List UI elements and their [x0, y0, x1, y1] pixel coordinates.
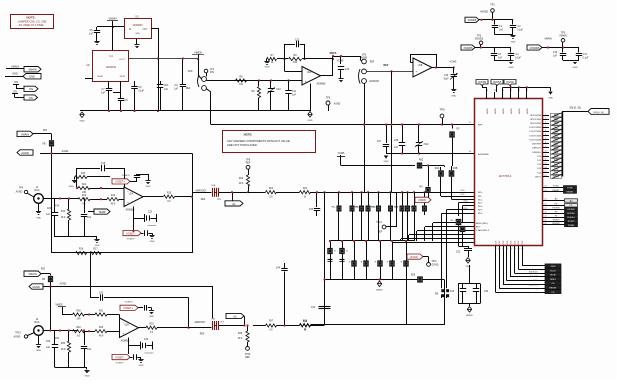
svg-text:A2: A2: [233, 314, 237, 318]
svg-text:VCM5: VCM5: [338, 152, 345, 155]
svg-text:VOSET+: VOSET+: [123, 307, 133, 310]
svg-text:49.9: 49.9: [61, 217, 66, 219]
svg-text:R22: R22: [269, 188, 274, 190]
svg-text:ADR4540: ADR4540: [106, 66, 117, 69]
svg-text:ON: ON: [14, 81, 18, 84]
svg-text:GND: GND: [139, 365, 144, 367]
svg-text:IN1−: IN1−: [478, 196, 483, 198]
svg-text:R10: R10: [81, 173, 86, 175]
svg-text:RCA: RCA: [34, 321, 39, 324]
svg-text:R13: R13: [111, 195, 116, 197]
svg-text:C31: C31: [311, 307, 316, 309]
svg-text:AD8656: AD8656: [316, 83, 326, 86]
svg-text:C5A: C5A: [164, 84, 169, 87]
svg-text:VMAIN: VMAIN: [28, 68, 36, 72]
svg-text:AMP2OUT: AMP2OUT: [194, 321, 206, 324]
svg-text:AGND: AGND: [376, 289, 383, 292]
svg-text:VOSET−: VOSET−: [127, 239, 136, 241]
svg-text:C15: C15: [444, 75, 449, 77]
svg-text:TEMP: TEMP: [97, 76, 104, 78]
svg-text:GND: GND: [573, 67, 578, 69]
svg-text:ON: ON: [29, 87, 33, 91]
svg-text:GND: GND: [36, 218, 41, 220]
svg-text:GND: GND: [95, 245, 100, 247]
svg-text:GND: GND: [265, 67, 270, 69]
svg-text:GND: GND: [149, 316, 154, 318]
svg-text:TP16: TP16: [245, 354, 251, 356]
svg-text:IN2−: IN2−: [478, 203, 483, 205]
svg-text:AGNDCP: AGNDCP: [369, 80, 379, 83]
svg-text:DB9/SEL: DB9/SEL: [532, 152, 541, 154]
svg-text:IN2+: IN2+: [478, 199, 483, 201]
svg-text:R31: R31: [99, 310, 104, 312]
svg-text:18: 18: [517, 249, 519, 251]
svg-text:U1B: U1B: [418, 65, 423, 67]
svg-text:C16: C16: [553, 52, 558, 54]
svg-text:GND: GND: [511, 42, 516, 44]
svg-text:DB7/FMT: DB7/FMT: [532, 144, 542, 146]
svg-text:FB: FB: [42, 279, 45, 281]
svg-text:C21: C21: [87, 217, 92, 219]
svg-text:ON: ON: [13, 90, 17, 93]
svg-text:ST/SPI: ST/SPI: [553, 219, 560, 221]
svg-text:R30: R30: [76, 310, 81, 312]
svg-text:AD: AD: [86, 64, 90, 67]
svg-text:1uF: 1uF: [499, 30, 504, 32]
svg-text:TP11: TP11: [431, 261, 437, 263]
svg-text:1uF: 1uF: [89, 33, 94, 36]
svg-text:REF5: REF5: [330, 51, 337, 55]
svg-text:DVDD5: DVDD5: [493, 81, 502, 84]
svg-text:TP1: TP1: [490, 4, 495, 7]
svg-text:GND: GND: [308, 120, 313, 122]
svg-text:IN3−: IN3−: [478, 210, 483, 212]
svg-text:12: 12: [494, 249, 496, 251]
svg-text:1uF: 1uF: [46, 214, 51, 216]
svg-text:49.9: 49.9: [61, 349, 66, 351]
svg-text:R11: R11: [82, 184, 87, 186]
svg-text:C10: C10: [276, 89, 281, 91]
svg-text:VMAIN: VMAIN: [544, 38, 552, 41]
svg-text:17: 17: [514, 249, 516, 251]
svg-text:TRIM: TRIM: [119, 76, 125, 78]
svg-text:PD: PD: [570, 205, 573, 207]
svg-text:MISO: MISO: [550, 279, 556, 281]
svg-text:C28: C28: [394, 140, 399, 142]
svg-text:XTAL1/MCLK: XTAL1/MCLK: [476, 229, 490, 232]
svg-text:AVDD: AVDD: [518, 108, 521, 114]
svg-text:1uF: 1uF: [164, 89, 169, 91]
svg-text:SDI/SCLK: SDI/SCLK: [529, 272, 539, 274]
svg-text:IOVDD5: IOVDD5: [530, 46, 540, 50]
svg-text:R37: R37: [269, 320, 274, 322]
svg-text:AVDD: AVDD: [526, 108, 529, 114]
svg-text:ADR4540: ADR4540: [133, 24, 144, 27]
svg-text:IN4+: IN4+: [478, 213, 483, 215]
svg-text:SCLK: SCLK: [518, 240, 520, 246]
svg-text:VMAIN: VMAIN: [11, 66, 19, 69]
svg-text:TEMP: TEMP: [98, 210, 105, 214]
svg-text:49.9: 49.9: [99, 335, 104, 337]
svg-text:VMAIN: VMAIN: [21, 132, 29, 136]
svg-text:C5A: C5A: [211, 184, 216, 187]
svg-text:REF: REF: [370, 62, 375, 64]
svg-text:R17: R17: [93, 249, 98, 251]
svg-text:49.9: 49.9: [238, 338, 243, 340]
svg-text:0.1uF: 0.1uF: [138, 91, 144, 93]
svg-text:C42: C42: [99, 293, 104, 295]
svg-text:−: −: [305, 68, 307, 72]
svg-text:MOSI: MOSI: [550, 275, 556, 277]
svg-text:RESET: RESET: [549, 288, 557, 290]
svg-text:VMAIN: VMAIN: [559, 35, 567, 38]
svg-text:19: 19: [521, 249, 523, 251]
svg-text:AGND: AGND: [16, 191, 23, 194]
svg-text:VCM5: VCM5: [337, 60, 344, 63]
svg-text:TP4: TP4: [19, 188, 24, 190]
svg-text:49.9: 49.9: [111, 203, 116, 205]
svg-text:C17: C17: [583, 54, 588, 56]
svg-text:TP6: TP6: [326, 98, 331, 100]
svg-text:C44: C44: [276, 268, 281, 270]
svg-text:R38: R38: [303, 320, 308, 322]
svg-text:DOUT0/DB6: DOUT0/DB6: [529, 139, 542, 141]
svg-text:VMAIN: VMAIN: [109, 18, 117, 21]
svg-text:15: 15: [506, 249, 508, 251]
svg-text:C40: C40: [46, 341, 51, 343]
svg-text:R3A: R3A: [435, 167, 440, 170]
svg-text:SCLK: SCLK: [511, 240, 513, 246]
svg-text:VOSET−: VOSET−: [116, 363, 125, 365]
svg-text:IN4−: IN4−: [476, 227, 481, 229]
svg-text:AVDD: AVDD: [494, 108, 497, 114]
svg-text:AGND: AGND: [334, 103, 341, 106]
svg-text:VMAIN: VMAIN: [28, 272, 36, 276]
svg-text:R28: R28: [411, 275, 416, 277]
svg-text:ST/SPI: ST/SPI: [568, 221, 575, 223]
svg-text:SCLK: SCLK: [522, 240, 524, 246]
svg-text:AVDD: AVDD: [502, 108, 505, 114]
svg-text:AIN4+(NILL): AIN4+(NILL): [476, 222, 488, 225]
svg-text:REF: REF: [384, 64, 389, 67]
svg-text:DVDD5: DVDD5: [475, 38, 484, 41]
svg-text:C12: C12: [295, 40, 300, 42]
svg-text:U2A: U2A: [129, 193, 134, 196]
svg-text:GND: GND: [150, 241, 155, 243]
svg-text:PIN/SPI: PIN/SPI: [552, 223, 560, 225]
svg-text:REF: REF: [478, 125, 483, 127]
svg-text:1uF: 1uF: [394, 147, 399, 149]
svg-text:IN2+: IN2+: [464, 201, 469, 203]
svg-text:IN3+: IN3+: [478, 206, 483, 208]
svg-text:AD7768-4: AD7768-4: [499, 174, 512, 178]
svg-text:AGND: AGND: [466, 314, 473, 317]
svg-text:SDI [0..15]: SDI [0..15]: [593, 112, 604, 114]
svg-text:IN: IN: [129, 29, 132, 31]
svg-text:IN2−: IN2−: [464, 208, 469, 210]
svg-text:R3B: R3B: [453, 168, 458, 170]
svg-text:DGND: DGND: [410, 256, 418, 259]
svg-text:TP9: TP9: [439, 108, 445, 112]
svg-text:AVDD: AVDD: [486, 108, 489, 114]
svg-text:16: 16: [510, 249, 512, 251]
svg-text:+: +: [123, 332, 125, 336]
svg-text:C13: C13: [345, 69, 350, 71]
svg-text:A5V: A5V: [210, 71, 215, 74]
svg-text:ARE NOT POPULATED.: ARE NOT POPULATED.: [227, 143, 258, 147]
svg-text:SYNC: SYNC: [567, 187, 573, 189]
svg-text:miniature: miniature: [148, 224, 158, 227]
svg-text:FILTER: FILTER: [552, 207, 560, 209]
svg-text:SCLK: SCLK: [514, 240, 516, 246]
svg-text:AS USED AT A TIME: AS USED AT A TIME: [19, 23, 44, 27]
svg-text:SCLK: SCLK: [495, 240, 497, 246]
svg-text:FB1: FB1: [43, 130, 48, 132]
svg-text:GND: GND: [451, 96, 456, 98]
svg-text:47uF: 47uF: [423, 144, 429, 146]
svg-text:AVDD: AVDD: [510, 108, 513, 114]
svg-text:CS: CS: [551, 283, 555, 285]
svg-text:14: 14: [502, 249, 504, 251]
svg-text:GND: GND: [548, 98, 553, 100]
svg-text:R14: R14: [61, 211, 66, 213]
svg-text:GND: GND: [36, 350, 41, 352]
svg-text:CS/DRDY: CS/DRDY: [529, 284, 539, 286]
svg-text:C32: C32: [456, 252, 461, 254]
svg-text:1uF: 1uF: [292, 95, 297, 97]
svg-text:DVDD5: DVDD5: [464, 46, 473, 50]
svg-text:SDI [0..15]: SDI [0..15]: [569, 107, 581, 110]
svg-text:AGND: AGND: [21, 151, 29, 155]
svg-text:DOUT1/DB5: DOUT1/DB5: [529, 135, 542, 137]
svg-text:0.1uF: 0.1uF: [583, 58, 589, 60]
svg-text:FB2: FB2: [419, 160, 424, 162]
svg-text:PDWN: PDWN: [568, 225, 575, 227]
svg-text:IN1+: IN1+: [478, 192, 483, 194]
svg-text:C27: C27: [377, 141, 382, 143]
svg-text:GPIO1/DB1: GPIO1/DB1: [530, 119, 542, 121]
svg-text:−: −: [419, 61, 421, 65]
svg-text:−: −: [123, 321, 125, 325]
svg-text:R15: R15: [167, 193, 172, 195]
svg-text:SCLK: SCLK: [550, 270, 556, 272]
svg-text:R16: R16: [79, 249, 84, 251]
svg-text:OUT: OUT: [143, 29, 148, 31]
svg-text:SYNC: SYNC: [553, 186, 559, 188]
svg-text:GND: GND: [69, 186, 74, 188]
svg-text:GPIO2/DB2: GPIO2/DB2: [530, 123, 542, 125]
svg-text:TP15: TP15: [15, 333, 21, 335]
svg-text:C33: C33: [450, 291, 455, 293]
svg-text:C23: C23: [148, 212, 153, 214]
svg-text:R35: R35: [149, 324, 154, 326]
svg-text:C19: C19: [101, 163, 106, 165]
svg-text:VOSET−: VOSET−: [126, 232, 136, 235]
svg-text:1uF: 1uF: [46, 347, 51, 349]
svg-text:TP10: TP10: [376, 222, 382, 224]
svg-text:REF: REF: [378, 232, 383, 234]
svg-text:R20: R20: [239, 178, 244, 180]
svg-text:R33: R33: [99, 327, 104, 329]
svg-text:FB2: FB2: [41, 269, 46, 271]
svg-text:VCM5: VCM5: [450, 61, 457, 64]
svg-text:VOUT: VOUT: [119, 59, 126, 61]
svg-text:VOSET+: VOSET+: [122, 175, 131, 177]
svg-text:VOSET+: VOSET+: [115, 181, 125, 184]
svg-text:DGND: DGND: [432, 265, 439, 267]
svg-text:AGNDREF: AGNDREF: [478, 153, 489, 156]
svg-text:NOTE:: NOTE:: [244, 133, 253, 137]
svg-text:ON: ON: [29, 96, 33, 100]
svg-text:GND: GND: [85, 376, 90, 378]
svg-text:AGND: AGND: [32, 285, 40, 289]
svg-text:+: +: [416, 70, 418, 74]
svg-text:PD: PD: [551, 292, 554, 294]
svg-text:TP41: TP41: [54, 338, 60, 340]
svg-text:SDO/SPI: SDO/SPI: [530, 276, 539, 278]
svg-text:TP8: TP8: [246, 160, 251, 162]
svg-text:SCLK: SCLK: [507, 240, 509, 246]
svg-text:IN1−: IN1−: [461, 194, 466, 196]
svg-text:DOUT3/DB3: DOUT3/DB3: [529, 127, 542, 129]
svg-text:GND: GND: [29, 75, 35, 79]
svg-text:AGND: AGND: [14, 336, 21, 339]
svg-text:GND: GND: [80, 121, 85, 123]
svg-text:13: 13: [498, 249, 500, 251]
svg-text:SCLK: SCLK: [533, 280, 539, 282]
svg-text:C43: C43: [144, 339, 149, 341]
svg-text:VMID5: VMID5: [418, 199, 426, 202]
svg-text:U2B: U2B: [124, 325, 129, 327]
svg-text:REF: REF: [186, 88, 191, 90]
svg-text:R12: R12: [82, 195, 87, 197]
svg-text:GND: GND: [551, 266, 556, 268]
svg-text:VDD: VDD: [188, 71, 193, 73]
svg-text:AVDD5: AVDD5: [478, 81, 487, 84]
svg-text:DRDY: DRDY: [535, 176, 542, 178]
svg-text:U1A: U1A: [307, 71, 312, 74]
svg-text:REF: REF: [200, 334, 205, 336]
svg-text:REF: REF: [245, 357, 250, 359]
svg-text:A5VB: A5VB: [361, 56, 368, 59]
svg-text:+: +: [127, 201, 129, 205]
svg-text:R36: R36: [238, 333, 243, 335]
svg-text:AGND: AGND: [60, 283, 67, 286]
svg-text:IN1+: IN1+: [461, 190, 466, 192]
svg-text:C11: C11: [292, 91, 297, 93]
svg-text:GPIO0/DB0: GPIO0/DB0: [530, 115, 542, 117]
svg-text:A1: A1: [232, 202, 236, 206]
svg-text:FILTER: FILTER: [567, 209, 575, 211]
svg-text:GND: GND: [135, 33, 140, 35]
svg-text:FB: FB: [43, 144, 46, 146]
svg-text:AGND: AGND: [62, 150, 69, 153]
svg-text:−: −: [127, 190, 129, 194]
svg-text:VOSET−: VOSET−: [115, 356, 125, 359]
svg-text:MODE1: MODE1: [567, 217, 575, 219]
svg-text:MODE0: MODE0: [567, 213, 575, 215]
svg-text:1uF: 1uF: [498, 58, 503, 60]
svg-text:VMID5: VMID5: [194, 52, 202, 55]
svg-text:+: +: [305, 80, 307, 84]
svg-text:49.9: 49.9: [239, 183, 244, 185]
svg-text:DOUT2/DB4: DOUT2/DB4: [529, 131, 542, 133]
svg-text:1uF: 1uF: [174, 89, 179, 91]
svg-text:JUMPER C5A, C5, C5B: JUMPER C5A, C5, C5B: [18, 20, 47, 24]
svg-text:REF: REF: [246, 163, 251, 165]
svg-text:GND: GND: [12, 73, 18, 76]
svg-text:C20: C20: [47, 208, 52, 210]
svg-text:C5B: C5B: [211, 319, 216, 321]
svg-text:miniature: miniature: [145, 352, 155, 355]
svg-text:R32: R32: [76, 327, 81, 329]
svg-text:R24: R24: [303, 188, 308, 190]
svg-text:RCA: RCA: [34, 189, 39, 192]
svg-text:REF: REF: [201, 199, 206, 201]
svg-text:AVDD5: AVDD5: [480, 11, 488, 14]
svg-text:C30: C30: [309, 209, 314, 211]
svg-text:1uF: 1uF: [553, 56, 558, 58]
svg-text:1uF: 1uF: [101, 93, 106, 95]
svg-text:C34: C34: [484, 291, 489, 293]
svg-text:GND: GND: [146, 186, 151, 188]
svg-text:NOTE:: NOTE:: [26, 16, 35, 20]
svg-text:R34: R34: [61, 343, 66, 345]
svg-text:0.1uF: 0.1uF: [517, 30, 523, 32]
svg-text:TP14: TP14: [54, 206, 60, 208]
svg-text:AVDD5: AVDD5: [468, 18, 477, 22]
svg-text:PD: PD: [555, 204, 558, 206]
svg-text:C41: C41: [87, 349, 92, 351]
svg-text:SCLK: SCLK: [499, 240, 501, 246]
svg-text:RESET: RESET: [553, 190, 561, 192]
svg-text:IOVDD: IOVDD: [506, 81, 514, 84]
svg-text:GND: GND: [466, 266, 471, 268]
svg-text:GND: GND: [384, 161, 389, 163]
svg-text:VOSET+: VOSET+: [125, 302, 134, 304]
svg-text:10uF: 10uF: [443, 79, 449, 81]
svg-text:DB8/CLK: DB8/CLK: [532, 148, 541, 150]
svg-text:GND: GND: [509, 67, 514, 69]
svg-text:RESET: RESET: [567, 192, 575, 194]
svg-text:SCLK: SCLK: [503, 240, 505, 246]
svg-text:0.1uF: 0.1uF: [515, 58, 521, 60]
